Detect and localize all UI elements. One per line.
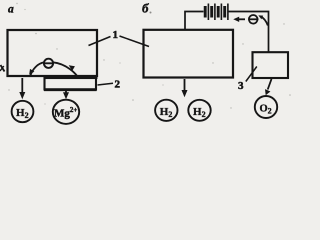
arrow to H2 (left vessel) <box>21 78 23 93</box>
stray mark at left edge <box>1 65 5 72</box>
leader 3 to box <box>246 67 257 82</box>
electron symbol (circle with minus) right <box>249 15 258 24</box>
svg-text:3: 3 <box>238 80 244 92</box>
O2 product circle <box>255 96 277 118</box>
leader 2 to plate <box>98 83 114 85</box>
arrow to H2 (right vessel) <box>184 79 186 91</box>
svg-text:а: а <box>8 4 14 16</box>
leader 1 to left vessel <box>89 37 111 46</box>
curved arrow from wire to electron <box>260 16 268 25</box>
vessel 1 left (big rectangle) <box>8 30 98 76</box>
H2 product circle right 1 <box>155 100 177 121</box>
battery B1 <box>205 6 225 18</box>
paper background <box>0 0 296 126</box>
electron arc left segment <box>30 62 44 76</box>
wire from vessel to battery <box>185 12 204 30</box>
wire from battery to electrode box <box>228 12 269 53</box>
arrow to O2 <box>268 79 272 90</box>
svg-text:б: б <box>142 1 149 16</box>
plate 2 (metal slab under vessel) <box>45 78 97 90</box>
electron symbol (circle with minus) left <box>44 59 53 68</box>
arrowhead left end of arc <box>29 69 34 75</box>
electron arc right segment <box>53 62 77 75</box>
H2 product circle left <box>12 101 34 122</box>
arrow to Mg2+ <box>65 91 67 94</box>
svg-text:1: 1 <box>113 29 119 41</box>
electrode box 3 <box>253 52 289 78</box>
vessel 1 right (big rectangle) <box>144 30 234 78</box>
arrowhead on arc pointing to electron <box>69 65 75 71</box>
Mg2+ product circle <box>53 100 79 124</box>
H2 product circle right 2 <box>188 100 210 121</box>
electron flow arrow (points left) <box>238 18 246 20</box>
leader 1 to right vessel <box>120 36 150 47</box>
svg-text:2: 2 <box>115 79 121 91</box>
